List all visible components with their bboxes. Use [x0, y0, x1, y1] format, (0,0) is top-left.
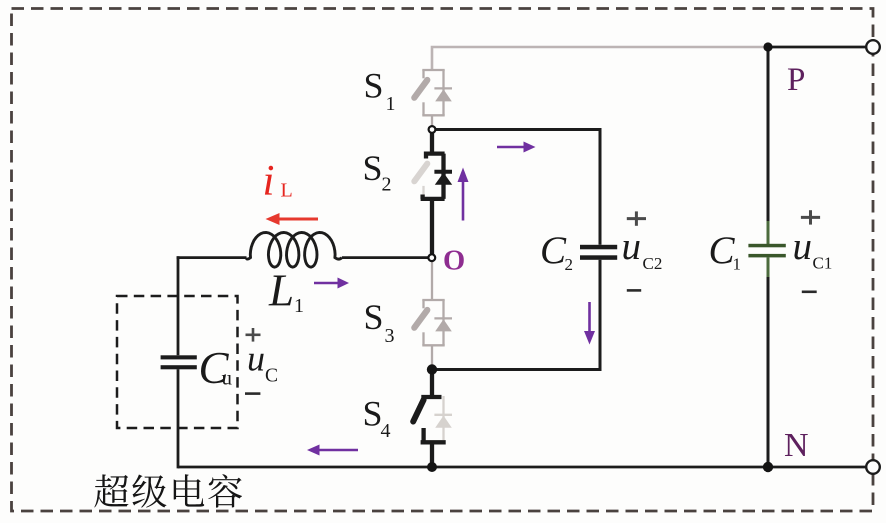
- svg-text:O: O: [443, 245, 465, 276]
- svg-text:u: u: [222, 366, 233, 390]
- plus sign uC: [246, 328, 261, 342]
- svg-text:S: S: [364, 65, 384, 105]
- svg-text:S: S: [363, 148, 383, 188]
- terminal P: [866, 40, 880, 54]
- svg-text:C1: C1: [813, 254, 833, 273]
- switch S2 gray parts: [414, 164, 427, 198]
- minus sign uC2: [627, 289, 641, 292]
- svg-text:3: 3: [385, 325, 395, 347]
- wire: gray top rail from S1 top to node above C1: [432, 47, 766, 70]
- wire: C2 top branch: [432, 130, 600, 245]
- svg-text:C2: C2: [643, 254, 663, 273]
- svg-text:2: 2: [565, 255, 574, 274]
- svg-text:N: N: [784, 427, 809, 464]
- plus sign uC1: [801, 210, 820, 224]
- switch S4 black conduction path (switch): [413, 370, 446, 468]
- capacitor Cu plates: [161, 355, 197, 359]
- junction N rail: [763, 462, 773, 472]
- svg-text:L: L: [281, 180, 293, 202]
- svg-text:4: 4: [381, 420, 391, 442]
- svg-text:P: P: [787, 62, 805, 98]
- svg-text:1: 1: [386, 93, 396, 115]
- minus sign uC1: [802, 290, 817, 293]
- current arrow down (C2 branch): [584, 302, 595, 345]
- wire: horizontal to inductor: [177, 256, 247, 259]
- current arrow right (below L1): [314, 278, 349, 289]
- svg-text:L: L: [268, 266, 294, 316]
- svg-text:i: i: [263, 158, 275, 205]
- wire: C1 vertical upper: [767, 47, 770, 223]
- svg-text:C: C: [265, 366, 278, 387]
- svg-text:u: u: [247, 339, 265, 379]
- svg-text:u: u: [793, 225, 813, 268]
- svg-text:2: 2: [382, 174, 392, 196]
- junction P rail: [763, 42, 772, 51]
- current arrow left (bottom rail): [307, 445, 358, 456]
- wire: C1 green stub bottom: [767, 257, 770, 278]
- minus sign uC: [245, 392, 260, 395]
- wire: black top rail to P terminal: [766, 46, 867, 49]
- svg-text:S: S: [364, 297, 384, 337]
- switch S3 (gray, off): [414, 261, 452, 367]
- wire: C1 vertical lower: [767, 277, 770, 467]
- node O junction (small ring): [428, 254, 435, 261]
- junction S3-S4: [427, 364, 437, 374]
- svg-text:1: 1: [294, 295, 304, 317]
- wire: C1 green stub top: [767, 221, 770, 244]
- current arrow right (top, into C2 loop): [497, 142, 536, 153]
- junction S1-S2 (small ring): [429, 126, 436, 133]
- capacitor C2 plates: [580, 245, 617, 250]
- switch S4 gray diode: [434, 396, 452, 440]
- wire: left vertical through Cu (lower): [177, 369, 180, 468]
- svg-text:C: C: [540, 229, 567, 272]
- current arrow up (beside S2): [458, 168, 469, 221]
- wire: inductor to node O: [342, 256, 432, 259]
- current arrow iL (red, above L1): [266, 213, 319, 225]
- wire: bottom rail N: [178, 466, 867, 469]
- caption 超级电容 (supercapacitor): [94, 474, 128, 507]
- plus sign uC2: [627, 211, 646, 225]
- junction bottom rail: [427, 462, 437, 472]
- svg-text:u: u: [622, 225, 642, 268]
- terminal N: [866, 460, 880, 474]
- supercapacitor dashed box: [117, 296, 238, 428]
- switch S1 (gray, off): [414, 70, 452, 127]
- svg-text:C: C: [709, 229, 736, 272]
- svg-text:1: 1: [733, 255, 742, 274]
- wire: C2 bottom branch: [432, 260, 600, 370]
- wire: left vertical through Cu (upper): [177, 256, 180, 355]
- capacitor C1 plates (green): [748, 244, 785, 248]
- switch S2 black conduction path (diode): [421, 130, 453, 258]
- inductor L1: [247, 233, 342, 268]
